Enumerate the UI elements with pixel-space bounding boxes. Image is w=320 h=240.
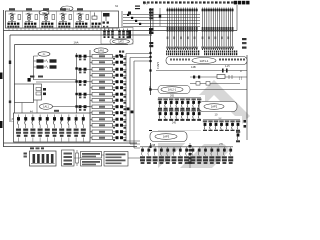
metering branch oval <box>38 52 50 56</box>
metering sub text <box>30 76 34 78</box>
block C breaker 12 <box>211 147 213 149</box>
block B breaker r2c7 <box>236 131 240 133</box>
block C breaker 1 <box>142 147 144 149</box>
left edge mark A <box>0 73 3 80</box>
block C breaker 2 <box>148 147 150 149</box>
block C breaker 6 <box>173 147 175 149</box>
site text top-right <box>234 1 237 5</box>
block B breaker r2c4 <box>219 131 223 133</box>
legend box 5 <box>104 152 128 167</box>
feeder column oval <box>94 48 108 53</box>
riser mid blobs <box>149 107 152 111</box>
feeder circuit row 6 <box>92 86 113 90</box>
block A breaker r1c2 <box>163 99 167 101</box>
incoming transformer feeder T5 <box>77 8 83 10</box>
legend box 4 <box>81 160 102 167</box>
block C breaker 7 <box>179 147 181 149</box>
block C breaker 15 <box>230 147 232 149</box>
svg-text:1AL2-1: 1AL2-1 <box>168 88 177 92</box>
block C bus <box>140 146 233 148</box>
equals marks <box>135 6 140 7</box>
feeder circuit row 1 <box>92 55 113 59</box>
block B breaker r1c6 <box>230 121 234 123</box>
block C breaker 13 <box>217 147 219 149</box>
block A breaker r2c6 <box>186 110 190 112</box>
feeder circuit row 2 <box>92 61 113 65</box>
svg-text:PJ: PJ <box>43 54 46 56</box>
svg-text:1AA2: 1AA2 <box>98 50 105 53</box>
feeder feed line <box>76 53 78 139</box>
feeder column bus <box>89 50 91 140</box>
main riser feeder <box>150 8 152 147</box>
left riser wire b <box>14 45 16 114</box>
feeder circuit row 11 <box>92 118 113 122</box>
power box C outline <box>148 131 236 143</box>
power box B outline <box>201 116 242 144</box>
svg-text:1AP3: 1AP3 <box>163 135 170 139</box>
legend box 3 <box>81 152 102 159</box>
svg-text:14B: 14B <box>191 65 196 69</box>
auxiliary transformer bank <box>101 28 133 45</box>
feeder circuit row 8 <box>92 99 113 103</box>
wire R3 <box>190 83 240 85</box>
riser stub wire <box>159 8 161 26</box>
legend detail box <box>30 151 57 166</box>
branch breaker 9 <box>75 115 77 118</box>
wire R2 <box>190 76 247 78</box>
routing junction blobs <box>127 108 130 111</box>
block A breaker r2c4 <box>175 110 179 112</box>
feeder circuit row 7 <box>92 93 113 97</box>
metering cluster <box>94 13 96 17</box>
block C breaker 5 <box>167 147 169 149</box>
riser junction dots <box>149 29 151 31</box>
svg-text:248: 248 <box>151 144 156 147</box>
main switchboard outline <box>6 11 119 28</box>
block B bus <box>203 119 240 121</box>
block A breaker r1c4 <box>175 99 179 101</box>
legend box 2 <box>62 150 75 166</box>
block B breaker r2c5 <box>225 131 229 133</box>
oval box sub text <box>152 96 154 98</box>
branch breaker 10 <box>82 115 84 118</box>
trunking name oval <box>192 58 216 64</box>
incoming transformer feeder T2 <box>26 8 32 10</box>
svg-text:4-25: 4-25 <box>225 66 230 68</box>
riser junction blob <box>128 12 131 15</box>
corner text marks <box>189 145 192 147</box>
right edge terminal blobs <box>244 120 247 123</box>
block A breaker r2c8 <box>197 110 201 112</box>
block A breaker r2c2 <box>163 110 167 112</box>
block B breaker r1c3 <box>214 121 218 123</box>
block C breaker 3 <box>154 147 156 149</box>
svg-text:245: 245 <box>172 122 177 125</box>
feeder circuit row 14 <box>92 136 113 140</box>
block C breaker 11 <box>205 147 207 149</box>
feeder circuit row 4 <box>92 74 113 78</box>
distribution box oval <box>158 86 190 94</box>
routing wire V1 <box>125 54 127 142</box>
trunking outline <box>166 57 247 65</box>
feeder circuit row 3 <box>92 68 113 72</box>
metering end blob <box>28 78 31 82</box>
branch breaker 4 <box>39 115 41 118</box>
svg-text:265: 265 <box>170 95 175 98</box>
routing wire V3 <box>133 61 135 148</box>
branch breaker 7 <box>61 115 63 118</box>
wire R1 <box>156 70 247 72</box>
feeder circuit row 13 <box>92 130 113 134</box>
block C breaker 4 <box>160 147 162 149</box>
drawing border left <box>3 10 5 147</box>
block C breaker 10 <box>198 147 200 149</box>
block A breaker r2c1 <box>158 110 162 112</box>
svg-text:1AL1: 1AL1 <box>43 106 49 109</box>
distribution cross bus <box>123 14 200 16</box>
right margin notes <box>242 38 247 40</box>
svg-text:1AT1-1: 1AT1-1 <box>200 59 209 63</box>
decorative watermark <box>158 80 250 168</box>
circuit schedule text band 1 <box>166 51 167 53</box>
top circuit labels <box>143 1 146 3</box>
block A breaker r2c5 <box>180 110 184 112</box>
block C breaker 14 <box>223 147 225 149</box>
block A breaker r1c5 <box>180 99 184 101</box>
block A breaker r1c8 <box>197 99 201 101</box>
branch breaker 5 <box>46 115 48 118</box>
panel label oval <box>61 6 73 11</box>
block B breaker r2c2 <box>208 131 212 133</box>
block B breaker r1c7 <box>236 121 240 123</box>
svg-text:1AT2: 1AT2 <box>118 41 124 44</box>
legend title text <box>30 147 34 149</box>
feeder circuit row 5 <box>92 80 113 84</box>
svg-text:1AA: 1AA <box>74 41 79 45</box>
drawing border bottom <box>4 142 138 144</box>
circuit schedule text band 2 <box>204 51 205 53</box>
metering branch wire <box>33 56 35 80</box>
legend detail hatches <box>33 154 36 163</box>
svg-text:«: « <box>240 70 242 74</box>
block A breaker r2c7 <box>191 110 195 112</box>
incoming transformer feeder T1 <box>9 8 15 10</box>
block B breaker r1c1 <box>203 121 207 123</box>
legend wire <box>102 154 105 156</box>
panel cell dividers <box>22 11 24 28</box>
spare panel box 1 <box>15 84 34 103</box>
block B breaker r1c2 <box>208 121 212 123</box>
feeder circuit row 12 <box>92 124 113 128</box>
spare panel box 2 <box>34 84 42 100</box>
svg-text:1AP4: 1AP4 <box>156 62 160 69</box>
svg-text:316: 316 <box>148 86 152 91</box>
block A breaker r1c6 <box>186 99 190 101</box>
lighting oval label <box>40 104 53 110</box>
block B breaker r2c3 <box>214 131 218 133</box>
bus coupler Q1 <box>103 13 110 17</box>
trunking schedule text <box>219 59 221 61</box>
block C oval <box>150 132 187 142</box>
feeder circuit row 10 <box>92 111 113 115</box>
block A breaker r1c1 <box>158 99 162 101</box>
routing corner text <box>119 51 121 53</box>
block A breaker r2c3 <box>169 110 173 112</box>
transformer label box <box>110 39 133 44</box>
branch breaker 2 <box>25 115 27 118</box>
left riser wire a <box>9 35 11 122</box>
feeder circuit row 9 <box>92 105 113 109</box>
branch breaker 3 <box>32 115 34 118</box>
spare box stub wire <box>21 103 23 114</box>
small relay cluster <box>36 88 41 91</box>
branch breaker 8 <box>68 115 70 118</box>
panel terminal ticks <box>8 28 10 30</box>
left edge mark B <box>0 121 3 128</box>
routing wire V2 <box>129 58 131 145</box>
block B breaker r1c4 <box>219 121 223 123</box>
bus wire L2 <box>10 34 152 36</box>
lighting panel outline <box>14 113 91 142</box>
feeder wire array group 1 <box>167 8 169 51</box>
metering bus pair <box>34 79 77 81</box>
legend symbol <box>76 153 79 163</box>
incoming transformer feeder T3 <box>43 8 49 10</box>
cross bus junctions <box>127 14 129 16</box>
power box A outline <box>145 95 205 130</box>
feeder wire array group 2 <box>202 8 204 51</box>
block A breaker r1c7 <box>191 99 195 101</box>
block B breaker r1c5 <box>225 121 229 123</box>
oval feed wire <box>53 106 91 108</box>
block A breaker r1c3 <box>169 99 173 101</box>
svg-text:( ): ( ) <box>239 76 242 80</box>
right border upper <box>236 5 238 31</box>
incoming transformer feeder T4 <box>60 8 66 10</box>
metering CT row 1 <box>37 59 44 62</box>
block A bus <box>158 97 201 99</box>
bus wire L3 <box>15 44 129 46</box>
block B breaker r2c1 <box>203 131 207 133</box>
block B breaker r2c6 <box>230 131 234 133</box>
block C breaker 9 <box>192 147 194 149</box>
branch breaker 1 <box>18 115 20 118</box>
svg-text:1AP2: 1AP2 <box>211 105 218 109</box>
svg-text:AL1: AL1 <box>11 118 14 123</box>
right dist box <box>199 102 237 112</box>
main bus wire L1 <box>4 30 238 32</box>
legend side text <box>24 153 27 155</box>
wire R4 <box>151 89 248 91</box>
drawing border right <box>246 55 248 118</box>
left riser tick <box>9 61 11 65</box>
metering CT row 2 <box>37 65 44 68</box>
block C breaker 8 <box>186 147 188 149</box>
branch breaker 6 <box>54 115 56 118</box>
panel label oval 2 <box>39 11 49 15</box>
